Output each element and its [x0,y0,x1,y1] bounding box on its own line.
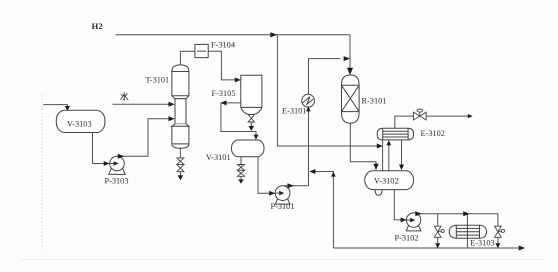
reactor R-3101 shell [342,75,360,123]
valve E-3103 block 2 [495,226,502,237]
pump P-3102 base [406,225,421,231]
svg-text:F-3104: F-3104 [211,40,236,49]
wire bottom product header [333,247,519,249]
wire E-3102 riser b [388,145,390,171]
wire P-3102 discharge header [415,214,498,227]
pump P-3102 hub arrow [410,218,415,223]
wire V-3103 inlet [43,105,67,107]
filter F-3104 internal plate [197,50,206,52]
valve E-3103 block 1 [434,226,441,237]
column T-3101 narrow section [175,99,186,124]
svg-text:V-3101: V-3101 [206,153,231,162]
pump P-3103 casing [110,156,125,171]
arrow bypass into downcomer [377,144,383,149]
wire F-3105 side outlet to V-3101 [225,102,241,104]
wire F-3104 outlet to F-3105 [208,51,236,80]
wire E-3102 downcomer c [401,140,403,165]
wire P-3101 discharge riser [284,185,309,187]
wire R-3101 outlet to V-3102 [350,123,376,164]
wire V-3102 outlet to P-3102 [394,190,411,220]
wire F-3105 outlet corner down [221,103,256,136]
svg-text:P-3101: P-3101 [271,202,295,211]
arrow vapor line tip [468,114,473,118]
arrow P-3103 discharge [118,154,124,159]
wire T-3101 drain tail [179,172,181,176]
svg-text:F-3105: F-3105 [212,89,236,98]
scan border vertical [41,95,43,250]
wire E-3101 to reactor junction [309,59,341,95]
wire junction to R-3101 inlet [349,59,351,61]
arrow valve 2 into header [495,243,500,248]
arrow into V-3103 [65,106,70,111]
exchanger E-3101 coil [303,97,314,104]
valve E-3103 block 2 stem [498,230,502,233]
exchanger E-3102 shell [377,128,413,140]
arrow into E-3101 [306,106,311,111]
arrow feed into T-3101 [169,116,175,121]
arrow junction to reactor [344,56,350,61]
wire T-3101 overhead to F-3104 [180,51,195,65]
arrow into P-3103 [104,161,110,166]
svg-text:P-3103: P-3103 [105,176,129,185]
arrow E-3103 inlet flow [463,211,469,216]
svg-text:E-3101: E-3101 [282,106,306,115]
svg-text:V-3102: V-3102 [374,176,399,185]
vessel V-3103 [56,110,105,132]
arrow valve 1 into header [435,243,440,248]
valve T-3101 drain lower [177,164,184,171]
valve F-3105 drain [248,115,254,123]
valve E-3102 stem [419,112,421,116]
arrow V-3101 drain tip [238,179,244,183]
scan border horizontal [20,259,545,261]
arrow riser into E-3102 [386,140,391,145]
arrow into P-3101 [269,191,275,196]
wire F-3105 drain stem [250,113,252,115]
valve V-3101 drain lower [238,170,245,176]
pump P-3102 casing [406,213,420,227]
svg-text:V-3103: V-3103 [67,119,92,128]
valve E-3103 block 1 handwheel [441,229,444,232]
exchanger E-3102 end plates and tubes [383,128,408,140]
arrow P-3101 discharge [288,183,294,188]
wire V-3103 outlet to P-3103 [93,133,115,164]
wire V-3101 outlet to P-3101 [258,157,280,194]
vessel V-3102 [365,171,414,190]
pump P-3101 base [275,198,290,204]
vessel V-3101 [232,140,265,157]
svg-text:E-3103: E-3103 [470,239,494,248]
wire V-3101 drain tail [240,176,242,179]
wire vapor line to battery limit [426,115,468,117]
pump P-3101 casing [275,186,290,201]
valve E-3102 outlet globe [414,112,427,120]
svg-text:H2: H2 [92,21,104,31]
pump P-3102 shaft line [407,219,411,221]
wire T-3101 bottoms stem [179,148,181,158]
arrow into V-3101 top [254,135,259,140]
wire P-3103 discharge to T-3101 [121,119,171,156]
vessel V-3102 boot nozzle [375,190,382,196]
arrow F-3105 drain tip [249,126,255,131]
svg-text:R-3101: R-3101 [362,97,387,106]
arrow bottom header tip [519,246,526,251]
wire valve branch 1 [437,214,439,227]
wire E-3102 downcomer a [382,140,384,171]
wire recycle from bottom header [313,172,334,249]
arrow recycle corner up [331,172,336,177]
exchanger E-3103 end plates and tubes [456,225,479,238]
arrow H2 header flow [270,32,277,37]
exchanger E-3103 through line [466,225,468,238]
arrow F-3105 side outlet left [220,100,226,105]
pump P-3103 base [109,169,125,175]
arrow into R-3101 [347,68,353,75]
wire H2 header [116,34,351,36]
arrow into F-3105 [235,77,241,82]
arrow downcomer into V-3102 [399,165,404,171]
arrow T-3101 drain tip [178,175,184,180]
arrow P-3102 discharge [415,211,421,216]
reactor R-3101 bed lines [342,85,360,111]
column T-3101 bottom section [172,124,189,148]
arrow water into T-3101 [169,102,175,107]
wire F-3105 drain to arrow [250,122,252,126]
pump P-3101 hub arrow [279,191,284,196]
pump P-3101 shaft line [276,192,280,194]
wire H2 down to R-3101 [349,35,351,69]
arrow recycle into riser [309,169,315,174]
column T-3101 top section [172,65,189,99]
wire E-3103 through pipe [466,214,468,248]
wire valve 2 to bottom header [497,237,499,244]
valve E-3103 block 2 handwheel [501,229,504,232]
wire V-3101 drain stem [240,157,242,165]
valve E-3102 actuator [417,109,422,112]
vessel F-3105 [241,75,262,114]
wire riser to E-3101 [308,111,310,186]
svg-text:T-3101: T-3101 [146,75,170,84]
filter F-3104 [195,44,208,57]
wire valve 1 to bottom header [437,237,439,244]
wire E-3102 vapor outlet [395,116,414,128]
arrow into P-3102 [401,217,407,222]
pump P-3103 hub arrow [114,161,119,166]
svg-text:E-3102: E-3102 [421,129,445,138]
pump P-3103 shaft line [110,163,114,165]
valve V-3101 drain upper [238,165,245,171]
svg-text:P-3102: P-3102 [395,234,419,243]
exchanger E-3101 casing [302,94,315,107]
arrow into V-3102 from R-3101 [373,164,378,171]
valve T-3101 drain upper [177,158,184,165]
valve E-3103 block 1 stem [438,230,442,233]
wire water feed to T-3101 [113,103,171,105]
wire H2 bypass branch down [277,35,379,146]
label water (hand-drawn CJK shui glyph) [121,93,128,100]
exchanger E-3103 shell [449,225,486,238]
